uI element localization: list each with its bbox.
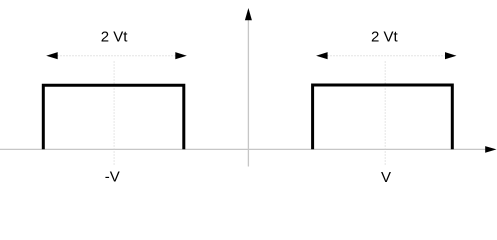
svg-text:V: V — [381, 169, 391, 186]
left dimension right arrowhead — [175, 52, 187, 59]
label -V — [105, 169, 120, 186]
x-axis line — [0, 148, 486, 150]
svg-text:-V: -V — [105, 169, 120, 186]
y-axis line — [247, 20, 249, 167]
dotted center line left (at -V) — [113, 62, 115, 165]
x-axis arrowhead — [485, 146, 496, 153]
right pulse waveform — [313, 85, 453, 149]
label V — [381, 169, 391, 186]
label 2 Vt left — [101, 29, 129, 46]
svg-text:2 Vt: 2 Vt — [101, 29, 129, 46]
left dimension left arrowhead — [46, 52, 58, 59]
left pulse waveform — [43, 85, 184, 149]
left dimension dotted line — [58, 55, 176, 57]
svg-text:2 Vt: 2 Vt — [371, 29, 399, 46]
right dimension left arrowhead — [316, 52, 328, 59]
dotted center line right (at V) — [384, 62, 386, 166]
y-axis arrowhead — [245, 8, 252, 20]
right dimension dotted line — [328, 55, 446, 57]
label 2 Vt right — [371, 29, 399, 46]
right dimension right arrowhead — [445, 52, 457, 59]
